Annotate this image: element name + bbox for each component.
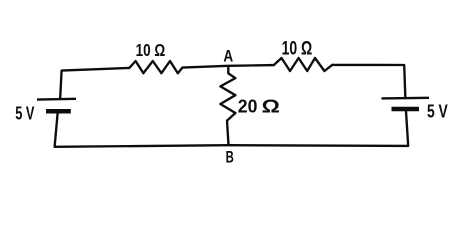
wire: battery V1 positive terminal up to top-left corner and right to R1 [60, 68, 129, 98]
battery V1 (5 V, left): long thin positive plate [37, 98, 76, 101]
svg-text:B: B [226, 148, 234, 167]
battery V2 (5 V, right): long thin positive plate [382, 97, 430, 100]
resistor R1 10 ohm (top left zigzag) [129, 61, 182, 73]
svg-text:A: A [223, 47, 233, 66]
wire: node B to bottom-left corner up to battery V1 negative terminal [55, 114, 229, 147]
wire: battery V2 negative terminal down to bottom-right corner and left to node B [229, 111, 409, 146]
battery V1 (5 V, left): short thick negative plate [46, 109, 71, 114]
svg-text:5 V: 5 V [427, 101, 448, 122]
wire: R2 to top-right corner down to battery V2 positive terminal [332, 65, 405, 97]
svg-text:Ω: Ω [262, 97, 280, 117]
resistor R2 10 ohm (top right zigzag) [274, 58, 333, 71]
wire: R1 right lead through node A to R2 [182, 65, 273, 68]
battery V2 (5 V, right): short thick negative plate [392, 107, 420, 112]
resistor R3 20 ohm (vertical zigzag) with leads from node A to node B [220, 66, 235, 145]
svg-text:10 Ω: 10 Ω [136, 40, 166, 60]
svg-text:20: 20 [238, 97, 258, 117]
svg-text:5 V: 5 V [15, 103, 34, 123]
svg-text:10 Ω: 10 Ω [282, 39, 313, 60]
